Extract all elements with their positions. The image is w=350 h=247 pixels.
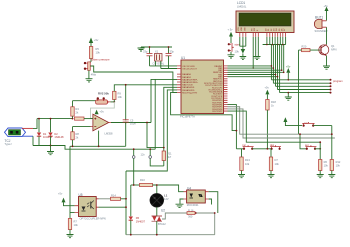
wire analog ground rail: [70, 145, 126, 147]
wire RD5 drop + row: [228, 107, 332, 134]
svg-text:+5v: +5v: [265, 86, 270, 90]
svg-text:R11: R11: [167, 152, 172, 156]
wire RE1 loop down: [126, 90, 177, 171]
svg-text:D2: D2: [271, 29, 273, 31]
wire button to MCLR run: [90, 66, 177, 92]
wire RA1 sense drop: [151, 79, 177, 149]
wire U5 emitter out: [99, 206, 127, 208]
svg-text:run: run: [304, 121, 308, 125]
svg-text:1N4148: 1N4148: [43, 135, 53, 139]
svg-text:10k: 10k: [96, 50, 101, 54]
resistor D7 pulldown: [269, 149, 279, 175]
node row test points (wires to dots): [271, 79, 342, 94]
svg-text:R6: R6: [324, 160, 328, 164]
wire LCD RS down to bus row: [252, 37, 254, 68]
power +5v (buzzer): [324, 4, 329, 21]
svg-text:NPN: NPN: [331, 47, 337, 51]
svg-text:10k: 10k: [245, 162, 250, 166]
svg-text:+5v: +5v: [286, 65, 291, 69]
wire wiper to R9: [111, 101, 115, 103]
phototransistor inside: [90, 202, 92, 209]
left pin stubs: [177, 66, 181, 93]
svg-text:OPTOCOUPLER-NPN: OPTOCOUPLER-NPN: [80, 216, 106, 220]
wire TC plus to top rail: [33, 119, 37, 129]
wire output to R11 top: [147, 123, 164, 148]
wire lamp to triac: [156, 207, 158, 216]
wire MCLR under-loop: [171, 92, 237, 130]
svg-text:+ 5v: + 5v: [228, 28, 234, 32]
ground (reset button): [86, 70, 93, 82]
crystal X1: [153, 50, 165, 69]
svg-text:SOUNDER: SOUNDER: [315, 29, 328, 33]
svg-text:TCJ: TCJ: [5, 139, 11, 143]
wire feedback top rail: [73, 100, 96, 102]
right pin stubs: [224, 66, 228, 111]
svg-text:TypeJ: TypeJ: [5, 142, 13, 146]
right pin names: [204, 66, 223, 113]
wire lamp rail to opto anode: [157, 185, 184, 192]
svg-text:10k: 10k: [324, 164, 329, 168]
ground (LCD power): [240, 54, 247, 60]
svg-text:R20: R20: [302, 45, 307, 49]
svg-text:D7: D7: [275, 158, 279, 162]
svg-text:D0: D0: [265, 29, 267, 31]
svg-text:+5v: +5v: [100, 110, 105, 114]
microcontroller U1 PIC16F877A: [177, 56, 228, 118]
triac U2 BTA12: [152, 208, 167, 234]
svg-text:MOC3021: MOC3021: [187, 203, 199, 207]
wire RD7 drop + row: [228, 111, 321, 142]
svg-text:start: start: [235, 42, 240, 46]
svg-text:R14: R14: [111, 193, 116, 197]
wire input bottom rail: [33, 146, 155, 150]
LED inside: [82, 207, 86, 211]
svg-text:RA2/AN2/VREF-: RA2/AN2/VREF-: [182, 78, 198, 81]
op-amp U2 LM358: [91, 114, 113, 135]
svg-text:R4: R4: [76, 107, 80, 111]
svg-text:BTA12: BTA12: [158, 222, 166, 226]
wire plus input: [73, 126, 91, 128]
ground (Q1): [323, 66, 330, 69]
button SW1: [236, 143, 271, 150]
LCD pin name ticks: [238, 26, 286, 31]
resistor R10: [140, 178, 157, 193]
diode D1 1N4148: [37, 118, 53, 146]
wire ac loop left vertical: [125, 171, 127, 235]
capacitor C5: [123, 118, 137, 146]
preset RV2 50k: [96, 92, 111, 105]
wire lamp feed: [131, 184, 140, 186]
svg-text:R10: R10: [140, 178, 145, 182]
terminal node circles: [132, 148, 151, 158]
svg-text:LM358: LM358: [105, 132, 113, 136]
svg-text:MCLR/Vpp/THV: MCLR/Vpp/THV: [182, 92, 198, 94]
thermocouple TCJ: [5, 128, 26, 146]
svg-text:RV2 50k: RV2 50k: [98, 92, 109, 96]
svg-text:33p: 33p: [170, 50, 175, 54]
resistor R7: [68, 219, 78, 235]
power +5v (R18 pull-up): [265, 86, 270, 100]
buzzer BUZ1: [314, 16, 327, 33]
button SW5: [228, 42, 240, 53]
svg-text:R13: R13: [245, 158, 250, 162]
svg-text:D7: D7: [284, 29, 286, 31]
LCD pin stubs: [240, 33, 286, 37]
power +5v (top button): [283, 117, 302, 125]
svg-text:+5v: +5v: [94, 38, 99, 42]
resistor R4: [71, 101, 80, 120]
resistor R14: [111, 193, 127, 200]
svg-text:+5v: +5v: [58, 192, 63, 196]
wire OSC1: [150, 65, 178, 67]
power +5v arrow (reset pull-up): [89, 38, 99, 47]
wire minus input loop (light): [91, 102, 115, 119]
power +5v (bus): [286, 65, 291, 81]
wire opto gate pin down: [209, 199, 212, 205]
wire op-amp output node: [111, 122, 151, 124]
svg-text:CRYSTAL: CRYSTAL: [153, 62, 165, 66]
wire TC minus down to bottom rail: [32, 136, 34, 145]
wire opto T1 down to ac rail: [214, 213, 216, 235]
svg-text:+5v: +5v: [324, 4, 329, 8]
optocoupler U4 MOC3021: [184, 186, 209, 207]
svg-text:360: 360: [188, 215, 193, 219]
ground (R6): [317, 175, 324, 178]
wire TC plus (red): [22, 127, 33, 129]
wire LCD VSS/VEE tie: [240, 37, 246, 46]
svg-text:10k: 10k: [74, 223, 79, 227]
button SW2: [270, 143, 281, 150]
resistor R12: [330, 126, 341, 175]
svg-text:10k: 10k: [336, 164, 341, 168]
svg-text:R9: R9: [118, 91, 122, 95]
diode D5 1N4007: [129, 185, 146, 235]
svg-text:D1: D1: [268, 29, 270, 31]
svg-text:system pressure: system pressure: [91, 58, 111, 62]
ground (bus): [285, 92, 292, 100]
power +5v (top button SW5): [228, 28, 234, 43]
button reset SW: [84, 62, 97, 77]
ground (R7): [67, 235, 74, 238]
svg-text:D6: D6: [281, 29, 283, 31]
optocoupler U5: [70, 193, 106, 220]
svg-text:LM016L: LM016L: [237, 5, 247, 9]
button SW3: [299, 133, 321, 150]
wire ac bottom rail: [126, 234, 215, 236]
svg-text:4k7: 4k7: [167, 155, 172, 159]
svg-text:X1: X1: [155, 50, 159, 54]
svg-text:BUZ1: BUZ1: [315, 16, 323, 20]
wire op-amp power down stub: [98, 131, 100, 147]
resistor R20: [299, 45, 321, 52]
lamp L1 12V (active, dark): [150, 193, 169, 207]
ground (opto cathode): [176, 199, 184, 208]
svg-text:1N4148: 1N4148: [54, 135, 64, 139]
wire crystal top rail: [141, 46, 172, 48]
resistor R13: [240, 149, 251, 175]
svg-text:R5: R5: [96, 47, 100, 51]
wire buzzer to Q1 collector: [326, 27, 328, 44]
resistor R6: [319, 141, 329, 174]
svg-text:R7: R7: [74, 219, 78, 223]
wire LCD RW/E down: [256, 37, 259, 56]
wire U5 collector out: [99, 198, 111, 200]
resistor R16: [187, 208, 215, 218]
ground (input): [47, 145, 54, 155]
wire left circle to lamp feed: [133, 158, 135, 185]
svg-text:1N4007: 1N4007: [136, 219, 146, 223]
svg-text:R12: R12: [336, 160, 341, 164]
svg-text:10k: 10k: [235, 49, 240, 53]
svg-text:Q1: Q1: [331, 44, 335, 48]
diode D2 1N4148: [48, 118, 64, 146]
svg-text:10k: 10k: [118, 95, 123, 99]
wire R9 node to output node: [125, 85, 127, 121]
svg-text:12v: 12v: [141, 152, 146, 156]
capacitor C2 33p: [166, 46, 175, 68]
wire LCD data bus down with junction row: [263, 37, 286, 93]
transistor Q1: [319, 44, 337, 56]
wire RD4 drop: [228, 105, 237, 149]
svg-text:RA5/AN4/SS: RA5/AN4/SS: [182, 86, 195, 89]
wire R5 to button: [89, 59, 91, 62]
ground (SW5): [228, 52, 235, 58]
wire Q1 emitter to ground: [326, 56, 328, 66]
button SW4: [302, 121, 332, 127]
LED inside: [190, 194, 194, 198]
wire opto main T2: [209, 192, 218, 213]
wire PIC RB0-RB3 to LCD bus verticals: [228, 65, 285, 77]
ground (D7): [268, 175, 275, 178]
resistor R18: [266, 100, 277, 149]
ground (LCD RW/E): [254, 57, 261, 60]
ground (R13): [238, 175, 245, 178]
power +5v (op-amp): [95, 110, 105, 115]
svg-text:OSC2/CLKOUT: OSC2/CLKOUT: [182, 68, 197, 70]
ground (crystal): [138, 47, 145, 51]
svg-text:33p: 33p: [143, 50, 148, 54]
wire RE0 loop to R11: [164, 87, 177, 151]
wire +5v feed rail left: [69, 146, 71, 218]
wire right circle to R11 bottom: [150, 158, 164, 166]
resistor R8 (plus input): [71, 127, 80, 147]
svg-text:R18: R18: [271, 100, 276, 104]
svg-text:L1: L1: [164, 194, 168, 198]
power +5v (U5): [58, 192, 70, 206]
wire R20 base feed down: [298, 50, 300, 134]
wire RD6 drop + row: [228, 109, 335, 138]
svg-text:U2: U2: [161, 208, 165, 212]
ground arrow (LCD): [241, 49, 246, 54]
svg-text:4Ma: 4Ma: [91, 73, 97, 77]
svg-text:RD7/PSP7: RD7/PSP7: [212, 111, 223, 113]
svg-text:10k: 10k: [275, 162, 280, 166]
svg-text:LCD1: LCD1: [237, 1, 245, 5]
ground (R12): [328, 175, 335, 178]
resistor R11: [162, 151, 172, 166]
svg-text:program: program: [333, 79, 343, 83]
resistor R3 (series input): [75, 117, 93, 120]
svg-text:RA0/AN0: RA0/AN0: [182, 73, 192, 76]
triac inside: [198, 194, 201, 197]
svg-text:R8: R8: [76, 132, 80, 136]
wire input top rail: [37, 118, 73, 120]
svg-text:VDD: VDD: [241, 26, 243, 31]
svg-text:RA3/AN3/VREF+: RA3/AN3/VREF+: [182, 81, 199, 84]
resistor R5: [89, 47, 100, 59]
wire OSC2: [161, 68, 177, 70]
capacitor C1 33p: [143, 46, 153, 66]
wire LCD VDD down: [242, 37, 244, 49]
svg-text:100n: 100n: [130, 122, 136, 126]
triac gate wire: [162, 213, 187, 219]
wire TC minus (blue): [22, 135, 33, 137]
resistor R9: [113, 85, 177, 102]
svg-text:12V: 12V: [164, 197, 169, 201]
left pin names: [182, 66, 199, 95]
LCD LCD1 LM016L: [236, 1, 294, 37]
